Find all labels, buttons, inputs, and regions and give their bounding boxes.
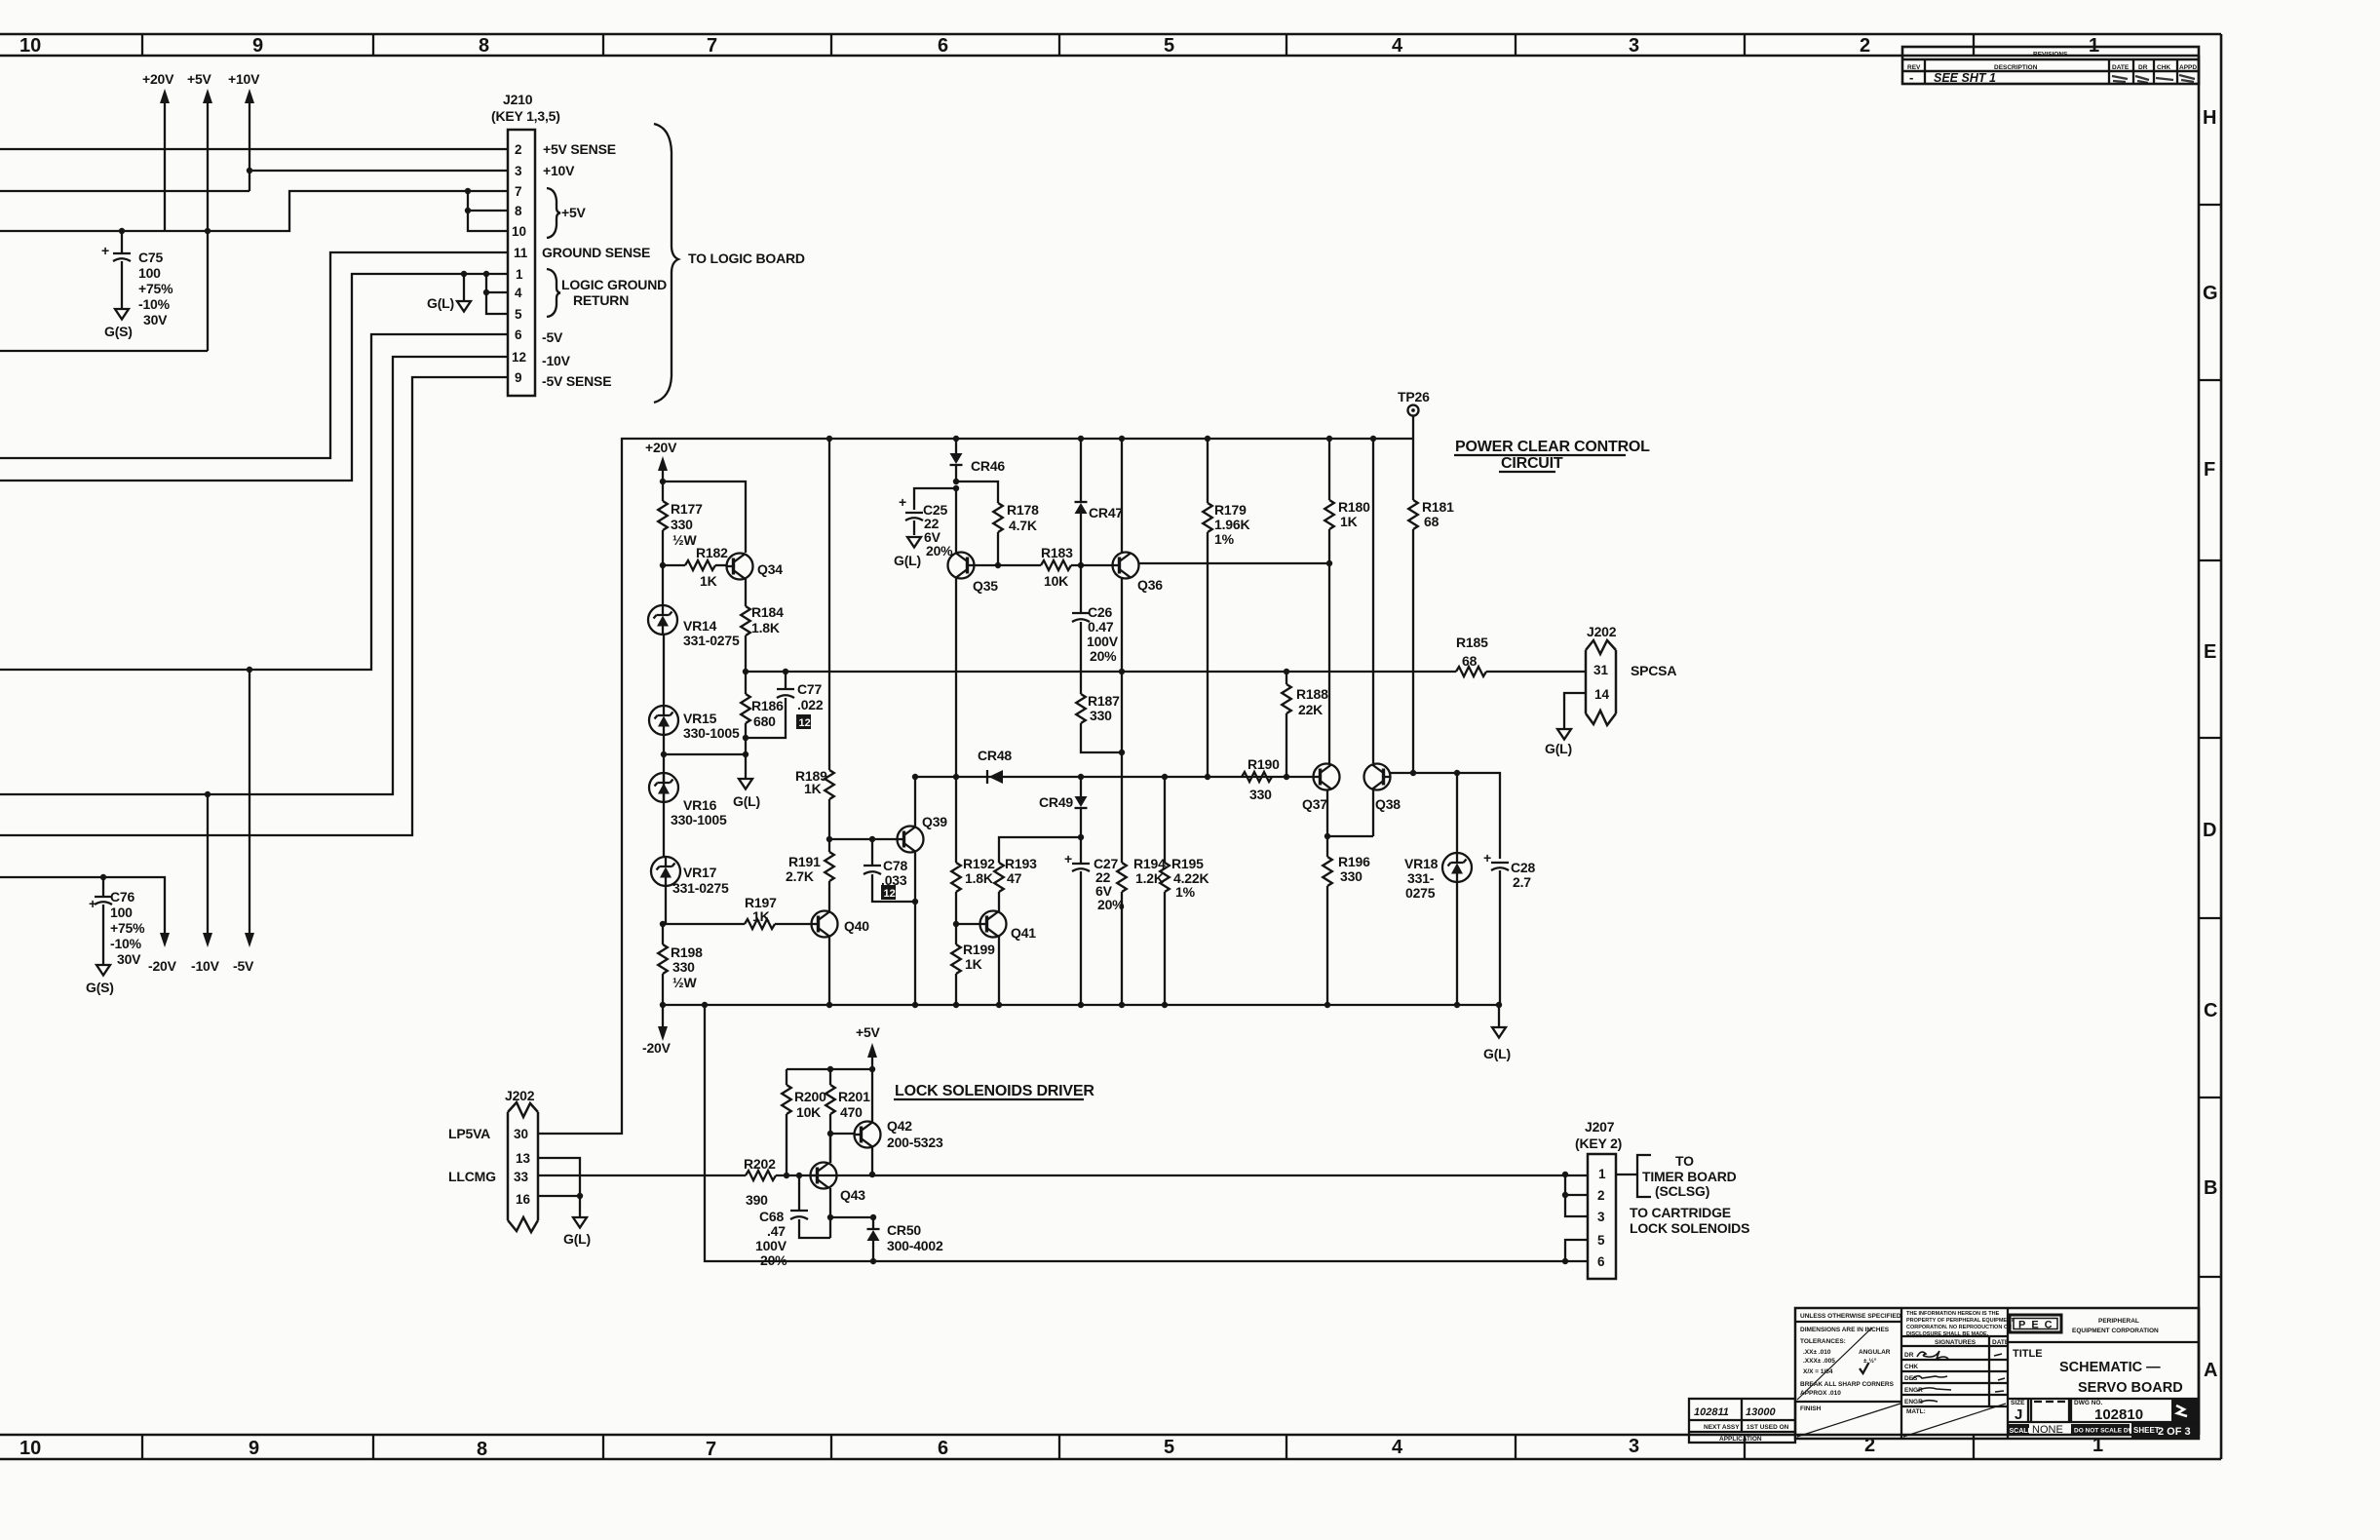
resistor R195: [1160, 777, 1170, 1005]
wire Q42 collector: [871, 1069, 873, 1122]
node rail C28 G(L): [1496, 1002, 1502, 1008]
wire pin6 -5V: [0, 334, 508, 670]
svg-text:1: 1: [1598, 1167, 1606, 1181]
brace pins 7-8-10: [547, 188, 560, 238]
svg-text:C76: C76: [110, 889, 134, 905]
section heading: [1455, 439, 1650, 472]
svg-text:CR46: CR46: [971, 458, 1005, 474]
svg-text:331-: 331-: [1407, 870, 1435, 886]
svg-text:Q41: Q41: [1011, 925, 1036, 941]
wire driver ground rail to J207 pin6: [705, 1005, 1588, 1261]
svg-text:R188: R188: [1296, 686, 1328, 702]
svg-text:VR14: VR14: [683, 618, 717, 634]
svg-text:MATL:: MATL:: [1906, 1408, 1926, 1415]
svg-text:+: +: [899, 494, 906, 510]
svg-text:NEXT ASSY: NEXT ASSY: [1704, 1424, 1740, 1431]
title lower divider: [2008, 1398, 2199, 1400]
capacitor C78: [864, 839, 915, 902]
svg-text:G(L): G(L): [1545, 741, 1572, 756]
wire Q38 emitter: [1372, 790, 1374, 837]
wire CR47 to C26: [1080, 565, 1082, 613]
VR16 labels: [671, 797, 727, 828]
wire J207 pins 1-2-3 tie: [1565, 1174, 1588, 1216]
transistor Q39: [898, 814, 948, 853]
node rail Q39 emitter: [912, 1002, 918, 1008]
finish box diagonal: [1797, 1404, 1900, 1437]
transistor Q37: [1302, 764, 1340, 813]
svg-text:GROUND SENSE: GROUND SENSE: [542, 245, 650, 260]
brace pins 1-4-5: [547, 269, 560, 317]
svg-text:33: 33: [514, 1170, 529, 1184]
node J207 pin6 tie: [1562, 1258, 1568, 1264]
svg-text:1.8K: 1.8K: [965, 870, 993, 886]
wire CR48 node line: [915, 776, 1313, 778]
capacitor C26: [1072, 613, 1090, 694]
TO TIMER BOARD labels: [1642, 1153, 1737, 1199]
svg-text:G(L): G(L): [1483, 1046, 1511, 1061]
svg-text:CHK: CHK: [2157, 64, 2170, 71]
tolerance diagonal line: [1797, 1328, 1872, 1400]
svg-text:5: 5: [515, 307, 522, 322]
wire pin3 from +10V junction: [250, 170, 508, 172]
svg-text:Q40: Q40: [844, 918, 869, 934]
svg-text:30V: 30V: [117, 951, 141, 967]
svg-text:FINISH: FINISH: [1800, 1405, 1822, 1412]
wire J202 pin14 to ground: [1564, 693, 1586, 729]
node -10V arrow tap: [205, 791, 211, 797]
test point TP26: [1398, 389, 1430, 439]
svg-text:R200: R200: [794, 1089, 826, 1104]
-20V net flag arrow: [642, 1005, 672, 1056]
svg-text:470: 470: [840, 1104, 863, 1120]
sheet blob: [2131, 1423, 2199, 1439]
diode CR47: [1075, 439, 1088, 565]
capacitor C77: [746, 672, 794, 738]
svg-text:DR: DR: [2138, 64, 2148, 71]
svg-text:CORPORATION. NO REPRODUCTION O: CORPORATION. NO REPRODUCTION OR: [1906, 1325, 2012, 1330]
svg-text:-5V: -5V: [542, 329, 563, 345]
R191 labels: [786, 854, 821, 884]
svg-text:SPCSA: SPCSA: [1631, 663, 1676, 678]
wire R186 bottom to G(L): [745, 738, 747, 779]
svg-text:ANGULAR: ANGULAR: [1859, 1349, 1891, 1356]
wire Q42 emitter: [871, 1147, 873, 1174]
svg-text:-5V SENSE: -5V SENSE: [542, 373, 611, 389]
wire VR15 junction to R186 leg: [664, 753, 746, 755]
transistor Q38: [1364, 764, 1401, 813]
property note text: [1906, 1311, 2015, 1337]
node rail CR46: [953, 436, 959, 442]
node VR column tie: [743, 751, 749, 757]
wire +10V feed from left edge: [0, 190, 250, 192]
node rail R189: [826, 436, 832, 442]
wire pin 1-4-5 tie: [486, 274, 508, 314]
svg-text:8: 8: [479, 35, 489, 57]
svg-text:R178: R178: [1007, 502, 1039, 518]
R187 labels: [1088, 693, 1120, 723]
boxed note 12 under C77: [796, 714, 811, 729]
R195 labels: [1171, 856, 1209, 900]
C78 labels: [881, 858, 907, 888]
svg-text:68: 68: [1424, 514, 1440, 529]
wire J207 pins 5-6 tie: [1565, 1240, 1588, 1261]
svg-text:4: 4: [1392, 1437, 1403, 1458]
-20V down arrow: [148, 933, 177, 974]
svg-text:Q42: Q42: [887, 1118, 912, 1134]
node CR50 bottom: [870, 1258, 876, 1264]
svg-text:SCHEMATIC —: SCHEMATIC —: [2059, 1360, 2161, 1375]
wire pin16 to ground: [579, 1196, 581, 1217]
svg-text:RETURN: RETURN: [573, 292, 629, 308]
node rail R199: [953, 1002, 959, 1008]
svg-text:+20V: +20V: [142, 71, 174, 87]
svg-text:SHEET: SHEET: [2133, 1426, 2160, 1435]
wire Q41 emitter: [998, 937, 1000, 1005]
+20V flag arrow: [160, 89, 170, 231]
ground G(L) below R186: [733, 779, 760, 809]
signatures table: [1901, 1336, 2008, 1406]
wire Q38 base line: [1391, 773, 1501, 859]
svg-text:2: 2: [515, 142, 522, 157]
capacitor C27: [1064, 837, 1090, 1005]
zone letters right: [2203, 107, 2218, 1381]
wire Q34 emitter: [745, 579, 747, 606]
heading underline: [894, 1098, 1084, 1100]
+10V rail vertical: [245, 89, 254, 191]
C75 value labels: [138, 250, 173, 327]
capacitor C28: [1483, 850, 1509, 1005]
svg-text:-: -: [1909, 70, 1913, 85]
C77 labels: [797, 681, 824, 712]
node +5V cross: [205, 228, 211, 234]
svg-text:Q39: Q39: [922, 814, 947, 829]
svg-text:-10V: -10V: [191, 958, 220, 974]
resistor R198: [658, 944, 668, 1005]
svg-text:Q35: Q35: [973, 578, 998, 594]
node rail lock-driver drop: [702, 1002, 708, 1008]
R186 labels: [751, 698, 784, 729]
R179 labels: [1214, 502, 1249, 547]
svg-text:1K: 1K: [700, 573, 717, 589]
svg-text:B: B: [2204, 1177, 2217, 1199]
svg-text:LOCK SOLENOIDS DRIVER: LOCK SOLENOIDS DRIVER: [895, 1083, 1094, 1099]
+5V net flag: [856, 1024, 881, 1069]
svg-text:CR48: CR48: [978, 748, 1012, 763]
resistor R186: [741, 672, 750, 738]
svg-text:REVISIONS: REVISIONS: [2033, 52, 2068, 58]
svg-text:7: 7: [515, 184, 522, 199]
svg-text:R195: R195: [1171, 856, 1204, 871]
transistor Q40: [812, 911, 870, 938]
svg-text:APPD: APPD: [2179, 64, 2197, 71]
node R183 CR47: [1078, 562, 1084, 568]
wire Q36 emitter vertical: [1121, 578, 1123, 1005]
svg-text:20%: 20%: [1090, 648, 1117, 664]
dwg no label and number: [2074, 1400, 2143, 1423]
svg-text:330: 330: [1340, 868, 1363, 884]
node rail CR47: [1078, 436, 1084, 442]
svg-text:UNLESS OTHERWISE SPECIFIED: UNLESS OTHERWISE SPECIFIED: [1800, 1313, 1901, 1320]
wire Q38 collector: [1372, 439, 1374, 763]
C28 labels: [1511, 860, 1535, 890]
node C77 top: [783, 669, 788, 674]
node R198 bottom: [660, 1002, 666, 1008]
svg-text:+10V: +10V: [228, 71, 260, 87]
diode CR48: [987, 770, 1003, 784]
node rail R196: [1324, 1002, 1330, 1008]
company name text: [2072, 1318, 2159, 1334]
wire CR49 to R193 jog: [999, 837, 1081, 863]
svg-text:+20V: +20V: [645, 440, 677, 455]
svg-text:EQUIPMENT CORPORATION: EQUIPMENT CORPORATION: [2072, 1328, 2159, 1334]
wire CR46 node to C25: [914, 488, 956, 510]
transistor Q42: [855, 1118, 943, 1150]
wire pin11 ground sense: [0, 252, 508, 458]
svg-text:SERVO BOARD: SERVO BOARD: [2078, 1380, 2183, 1396]
resistor R196: [1323, 857, 1332, 1005]
svg-text:R177: R177: [671, 501, 703, 517]
svg-text:102811: 102811: [1694, 1406, 1729, 1418]
C76 value labels: [110, 889, 145, 967]
matl box diagonal: [1903, 1404, 2006, 1437]
boxed note 12 under C78: [881, 885, 896, 900]
diode CR46: [950, 439, 963, 481]
ground G(S) under C76: [86, 965, 114, 995]
capacitor C76: [89, 877, 112, 965]
wire Q42 base: [830, 1133, 854, 1135]
svg-text:12: 12: [884, 888, 896, 900]
VR14 labels: [683, 618, 740, 648]
svg-text:DATE: DATE: [2112, 64, 2130, 71]
wire emitter tie to CR50: [830, 1216, 873, 1218]
svg-text:TP26: TP26: [1398, 389, 1430, 404]
svg-text:R196: R196: [1338, 854, 1370, 869]
wire Q43 emitter: [829, 1188, 831, 1238]
svg-text:G(L): G(L): [733, 793, 760, 809]
node J207 pin2: [1562, 1192, 1568, 1198]
wire Q41 base: [956, 923, 979, 925]
svg-text:680: 680: [753, 713, 776, 729]
resistor R199: [951, 924, 961, 1005]
node Q36 emitter SPCSA tie: [1119, 669, 1125, 674]
svg-text:1: 1: [516, 267, 523, 282]
connector J207: [1588, 1154, 1616, 1279]
unless-otherwise-specified box: [1795, 1308, 1901, 1439]
svg-text:8: 8: [477, 1439, 487, 1460]
resistor R183: [1041, 560, 1113, 570]
svg-text:+: +: [101, 243, 109, 258]
node rail Q36 collector: [1119, 436, 1125, 442]
svg-text:SCALE: SCALE: [2010, 1428, 2033, 1435]
wire Q36 collector: [1121, 439, 1123, 553]
J210 pin numbers: [512, 142, 528, 385]
+20V net flag: [645, 440, 677, 481]
ground G(S) under C75: [104, 309, 133, 339]
svg-text:-10%: -10%: [110, 936, 142, 951]
svg-text:+75%: +75%: [110, 920, 145, 936]
R189 labels: [795, 768, 827, 796]
svg-text:LP5VA: LP5VA: [448, 1126, 490, 1141]
svg-text:68: 68: [1462, 653, 1478, 669]
svg-text:1ST USED ON: 1ST USED ON: [1747, 1424, 1789, 1431]
capacitor C75: [101, 231, 131, 309]
big brace to logic board: [654, 124, 678, 403]
connector J202 pins 31 14: [1586, 640, 1616, 725]
svg-text:R190: R190: [1248, 756, 1280, 772]
wire pin9 -5V sense: [0, 377, 508, 835]
svg-text:VR16: VR16: [683, 797, 717, 813]
svg-text:3: 3: [515, 164, 522, 178]
J210 right side signal labels: [542, 141, 667, 389]
R196 labels: [1338, 854, 1370, 884]
svg-text:APPLICATION: APPLICATION: [1719, 1436, 1762, 1443]
svg-text:R194: R194: [1133, 856, 1166, 871]
R201 labels: [838, 1089, 870, 1120]
bracket to timer board: [1637, 1155, 1651, 1197]
TO CARTRIDGE LOCK SOLENOIDS labels: [1630, 1205, 1749, 1236]
svg-text:R187: R187: [1088, 693, 1120, 709]
svg-text:CR49: CR49: [1039, 794, 1073, 810]
zener VR15: [649, 706, 678, 735]
zone numbers bottom: [19, 1435, 2103, 1460]
border bottom inner line: [0, 1434, 2199, 1437]
signatures headers: [1904, 1339, 2010, 1405]
wire pin2 from left edge: [0, 148, 508, 150]
resistor R189: [825, 439, 834, 839]
R192 labels: [963, 856, 995, 886]
node C78 bottom tie: [912, 899, 918, 905]
wire pin4 stub: [486, 291, 508, 293]
svg-text:-20V: -20V: [642, 1040, 672, 1056]
J202 pin numbers: [514, 1127, 531, 1207]
svg-text:12: 12: [512, 350, 526, 365]
svg-text:LOCK SOLENOIDS: LOCK SOLENOIDS: [1630, 1220, 1749, 1236]
border right outer line: [2220, 34, 2223, 1459]
svg-text:POWER CLEAR CONTROL: POWER CLEAR CONTROL: [1455, 439, 1650, 455]
svg-text:30V: 30V: [143, 312, 168, 327]
svg-text:100V: 100V: [755, 1238, 787, 1253]
svg-text:PROPERTY OF PERIPHERAL EQUIPME: PROPERTY OF PERIPHERAL EQUIPMENT: [1906, 1318, 2015, 1324]
svg-text:G(S): G(S): [104, 324, 133, 339]
border top outer line: [0, 33, 2221, 36]
node +20V R177 top: [660, 479, 666, 484]
application table text: [1704, 1424, 1789, 1443]
svg-text:SIGNATURES: SIGNATURES: [1935, 1339, 1977, 1346]
resistor R187: [1076, 694, 1122, 752]
node pin4: [483, 289, 489, 295]
node R179 bottom: [1205, 774, 1210, 780]
node Q43 emitter CR50 tie: [827, 1214, 833, 1220]
R193 labels: [1005, 856, 1037, 886]
capacitor C68: [790, 1175, 830, 1238]
svg-text:TO: TO: [1675, 1153, 1694, 1169]
node C78 top: [869, 836, 875, 842]
node rail Q41 emitter: [996, 1002, 1002, 1008]
node rail Q40 emitter: [826, 1002, 832, 1008]
svg-text:E: E: [2204, 641, 2216, 663]
node R201 top: [827, 1066, 833, 1072]
svg-text:TOLERANCES:: TOLERANCES:: [1800, 1338, 1846, 1345]
resistor R179: [1203, 439, 1212, 777]
wire Q43 collector: [829, 1134, 831, 1163]
resistor R184: [741, 606, 750, 672]
svg-text:0.47: 0.47: [1088, 619, 1114, 635]
resistor R201: [825, 1069, 835, 1163]
svg-text:± ½°: ± ½°: [1863, 1357, 1877, 1365]
resistor R200: [782, 1069, 791, 1175]
ground G(L) under C25: [894, 537, 921, 568]
svg-text:R199: R199: [963, 942, 995, 957]
do not scale box: [2071, 1424, 2139, 1435]
node rail R194: [1119, 1002, 1125, 1008]
wire Q35 emitter: [955, 578, 957, 777]
svg-text:2: 2: [1860, 35, 1870, 57]
R200 labels: [794, 1089, 826, 1120]
svg-text:SIZE: SIZE: [2011, 1400, 2025, 1406]
R183 labels: [1041, 545, 1073, 589]
wire pin12 -10V: [0, 357, 508, 794]
svg-text:DR: DR: [1904, 1352, 1914, 1359]
application handwritten entries: [1694, 1406, 1776, 1418]
zener VR17: [651, 857, 680, 886]
ground G(L) at J202 lower: [563, 1217, 591, 1247]
VR18 labels: [1404, 856, 1439, 901]
R194 labels: [1133, 856, 1166, 886]
svg-text:331-0275: 331-0275: [683, 633, 740, 648]
wire pin8 stub: [468, 210, 508, 212]
wire Q39 collector: [914, 777, 916, 827]
size label and letter: [2011, 1400, 2025, 1423]
wire Q37 emitter: [1326, 790, 1328, 858]
PEC logo box: [2010, 1315, 2061, 1332]
wire emitter tie to Q38: [1327, 835, 1373, 837]
svg-text:R192: R192: [963, 856, 995, 871]
node C68 top: [796, 1173, 802, 1178]
capacitor C25: [899, 494, 923, 535]
R198 labels: [671, 944, 703, 990]
C26 labels: [1087, 604, 1119, 664]
node R181 bottom: [1410, 770, 1416, 776]
svg-text:6: 6: [515, 327, 522, 342]
svg-text:6: 6: [1597, 1254, 1605, 1269]
R178 labels: [1007, 502, 1039, 533]
svg-text:.XXX± .005: .XXX± .005: [1803, 1358, 1835, 1365]
svg-text:1.96K: 1.96K: [1214, 517, 1249, 532]
svg-text:Q34: Q34: [757, 561, 783, 577]
diode CR50: [867, 1217, 880, 1261]
wire G(L) drop: [463, 274, 465, 301]
svg-text:DISCLOSURE SHALL BE MADE.: DISCLOSURE SHALL BE MADE.: [1906, 1331, 1989, 1337]
svg-text:R181: R181: [1422, 499, 1454, 515]
svg-text:Q36: Q36: [1137, 577, 1163, 593]
node pin7 tie: [465, 188, 471, 194]
resistor R185: [1456, 667, 1586, 676]
wire +5V top rail of driver: [787, 1068, 872, 1070]
zener VR14: [648, 605, 677, 635]
svg-text:R183: R183: [1041, 545, 1073, 560]
svg-text:-10%: -10%: [138, 296, 171, 312]
svg-text:(KEY 2): (KEY 2): [1575, 1136, 1622, 1151]
svg-text:+5V: +5V: [856, 1024, 881, 1040]
revisions row scribbles: [2112, 75, 2195, 83]
svg-text:14: 14: [1594, 687, 1610, 702]
node R186 bottom: [743, 735, 749, 741]
resistor R188: [1282, 672, 1291, 777]
scale row: [2008, 1424, 2063, 1436]
node Q42 emitter on output wire: [869, 1172, 875, 1177]
svg-text:-20V: -20V: [148, 958, 177, 974]
ground G(L) at rail right end: [1483, 1005, 1511, 1061]
